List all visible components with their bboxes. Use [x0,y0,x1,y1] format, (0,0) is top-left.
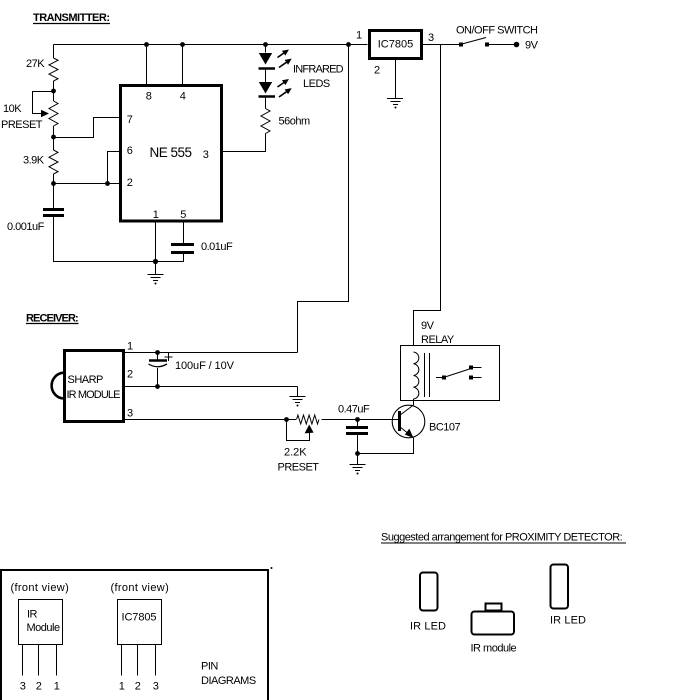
svg-text:7: 7 [127,114,133,126]
node junction 100uF bottom [155,384,160,389]
svg-text:3: 3 [20,681,26,693]
svg-text:1: 1 [54,681,60,693]
ground transmitter [148,261,164,285]
svg-text:8: 8 [146,91,152,103]
node junction pin2 row [51,181,56,186]
node junction 0.47uF top [355,417,360,422]
svg-text:9V: 9V [421,320,435,332]
big box PIN DIAGRAMS [1,570,268,700]
svg-text:1: 1 [119,681,125,693]
transistor Q1 BC107 [392,405,425,438]
label plus 100uF [165,353,173,361]
wire cap to ground row [54,217,156,262]
capacitor 0.001uF [43,210,64,216]
svg-text:2: 2 [127,177,133,189]
IC SHARP IR MODULE box [65,351,124,422]
potentiometer 2.2K PRESET [297,415,319,424]
svg-text:IC7805: IC7805 [122,612,157,624]
label SHARP IR MODULE [67,374,121,401]
title TRANSMITTER [33,12,110,24]
svg-text:3: 3 [153,681,159,693]
svg-text:PRESET: PRESET [278,462,320,474]
node junction wiper row [51,135,56,140]
svg-text:2: 2 [374,65,380,77]
IC7805 pin labels 1 2 3 [119,681,159,693]
IR module front outline [472,604,515,635]
IR Module pinout box [19,600,63,645]
LED D2 [259,82,276,97]
svg-text:RECEIVER:: RECEIVER: [26,313,78,325]
svg-text:10K: 10K [3,103,22,115]
svg-text:(front view): (front view) [11,582,70,594]
wire pin5 [183,222,185,244]
LED D2 arrows [276,77,294,100]
wire rail to 27K [53,45,55,59]
op-amp U1 NE555 box [121,86,222,222]
wire pin6 to pin2 row [108,152,120,184]
label PIN DIAGRAMS [201,661,256,688]
label 10K PRESET [1,103,43,131]
wiper arrow 10K [41,110,49,117]
svg-text:IR module: IR module [471,643,517,655]
svg-text:2.2K: 2.2K [284,447,307,459]
node junction 27K/10K [51,89,56,94]
svg-text:3: 3 [127,408,133,420]
title RECEIVER [26,313,79,325]
IC7805 pinout box [118,600,162,645]
svg-text:Module: Module [27,622,60,634]
LED D1 [259,53,276,69]
wire D2 to 56ohm [265,98,267,109]
svg-text:3.9K: 3.9K [23,155,45,167]
potentiometer 10K PRESET [49,101,58,126]
title proximity arrangement [381,532,626,544]
svg-text:LEDS: LEDS [303,78,330,90]
node junction pin4 rail [180,42,185,47]
label INFRARED LEDS [293,64,344,91]
svg-text:NE 555: NE 555 [149,145,191,160]
IR LED right outline [551,565,569,609]
wire 3.9K to cap [53,174,55,209]
wire SHARP pin3 row [125,419,296,421]
svg-text:PRESET: PRESET [1,119,43,131]
wire LED branch top [265,45,267,53]
IR Module legs [23,645,57,676]
svg-text:0.001uF: 0.001uF [7,221,45,233]
svg-text:IR LED: IR LED [550,615,586,627]
ground emitter [350,454,366,475]
wire top supply rail [54,44,368,46]
svg-text:TRANSMITTER:: TRANSMITTER: [33,12,110,24]
svg-text:IR MODULE: IR MODULE [67,389,121,401]
IR LED left outline [420,573,438,611]
svg-text:100uF / 10V: 100uF / 10V [175,360,235,372]
capacitor 100uF polarized [149,353,168,387]
wire wiper row to pin7 [54,118,120,138]
ground IC7805 [387,99,403,109]
svg-text:IR: IR [27,609,38,621]
wire 56ohm to pin3 [223,134,266,152]
capacitor 0.01uF [171,245,194,253]
svg-text:IC7805: IC7805 [378,39,413,51]
wiper arrow 2.2K [305,425,314,434]
wire pin2 row [54,183,120,185]
wire 10K to 3.9K [53,126,55,150]
node junction 2.2K left [284,417,289,422]
svg-text:1: 1 [127,341,133,353]
relay K1 box [401,346,500,401]
node junction 100uF top [155,350,160,355]
node junction emitter row [355,451,360,456]
wire 2.2K wiper loop [287,420,310,441]
wire relay feed drop [414,45,441,347]
svg-text:27K: 27K [26,58,45,70]
svg-text:1: 1 [153,209,159,221]
wire SHARP pin1 row [125,352,298,354]
IR Module pin labels 3 2 1 [20,681,60,693]
wire 2.2K to base [322,419,400,421]
wire pin3 to switch [423,44,461,46]
label 9V RELAY [421,320,455,346]
svg-text:Suggested arrangement for PROX: Suggested arrangement for PROXIMITY DETE… [381,532,623,544]
svg-text:BC107: BC107 [429,422,461,434]
svg-text:(front view): (front view) [111,582,170,594]
wire IC7805 pin2 [395,60,397,99]
wire collector to relay coil [413,399,415,405]
inductor relay coil [414,352,419,399]
node junction receiver feed rail [346,42,351,47]
wire SHARP pin2 row [125,386,298,388]
ground receiver pin2 [290,387,306,407]
regulator U2 IC7805 box [370,31,422,59]
svg-text:PIN: PIN [201,661,218,673]
svg-text:0.47uF: 0.47uF [338,404,370,416]
svg-text:9V: 9V [525,40,539,52]
node junction pin8 rail [144,42,149,47]
svg-text:2: 2 [127,369,133,381]
svg-text:0.01uF: 0.01uF [201,241,233,253]
svg-text:INFRARED: INFRARED [293,64,344,76]
capacitor 0.47uF [346,420,368,454]
IC7805 legs [122,645,156,676]
switch SW1 ON/OFF [459,38,515,47]
label 2.2K PRESET [278,447,320,474]
svg-text:SHARP: SHARP [68,374,104,386]
wire pin8 [146,45,148,85]
svg-text:2: 2 [135,681,141,693]
svg-text:5: 5 [180,209,186,221]
resistor 27K [49,58,58,81]
wire rail receiver drop [298,45,349,353]
node 9V terminal [514,42,520,48]
LED D1 arrows [276,47,294,70]
node junction LED rail [263,42,268,47]
svg-text:2: 2 [36,681,42,693]
resistor 56ohm [261,109,270,134]
svg-text:RELAY: RELAY [421,334,455,346]
wire pin1 [155,222,157,262]
relay contacts [436,366,482,380]
wire 0.01uF to ground row [156,254,184,262]
relay core lines [425,353,430,397]
wire 27K to 10K [53,81,55,101]
svg-text:3: 3 [428,32,434,44]
wire pin4 [182,45,184,85]
node junction pin6 drop [105,181,110,186]
svg-text:1: 1 [356,30,362,42]
svg-text:4: 4 [180,91,186,103]
svg-text:IR LED: IR LED [410,621,446,633]
svg-text:DIAGRAMS: DIAGRAMS [201,675,256,687]
label IR Module [27,609,60,635]
node junction ground row [153,259,158,264]
decorative dot top right [271,567,273,569]
lens SHARP module [52,373,63,399]
wire 10K wiper loop [33,92,54,114]
svg-text:ON/OFF SWITCH: ON/OFF SWITCH [456,25,538,37]
resistor 3.9K [49,150,58,174]
svg-text:3: 3 [203,149,209,161]
wire D1 to D2 [265,70,267,83]
wire emitter down [358,438,414,454]
svg-text:6: 6 [127,145,133,157]
svg-text:56ohm: 56ohm [279,116,310,128]
